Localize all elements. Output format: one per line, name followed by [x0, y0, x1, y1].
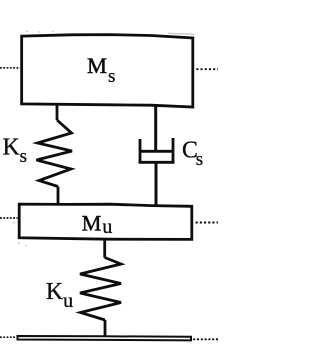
dotted line right of Ms	[196, 68, 218, 70]
svg-text:M: M	[82, 210, 102, 235]
unsprung mass box Mu	[19, 204, 192, 239]
wire from Mu to spring Ku	[103, 239, 106, 258]
spring Ku zigzag	[80, 258, 121, 321]
svg-text:u: u	[63, 290, 73, 312]
wire from Ms to spring Ks	[56, 104, 59, 120]
damper cup left wall	[139, 139, 142, 164]
wire from spring Ku to ground	[104, 320, 107, 337]
ground bar	[18, 336, 192, 340]
dotted line left of Mu	[0, 217, 18, 219]
dotted line left of ground	[0, 336, 16, 338]
wire from Ms to damper Cs	[154, 104, 157, 152]
damper cup bottom	[139, 161, 175, 164]
damper cup right wall	[172, 138, 175, 164]
dotted line right of Mu	[196, 222, 218, 224]
svg-text:s: s	[108, 66, 115, 87]
svg-text:M: M	[87, 53, 107, 78]
svg-text:u: u	[102, 216, 112, 238]
dotted line right of ground	[193, 338, 218, 340]
scan speckles	[13, 31, 201, 247]
dotted line left of Ms	[0, 67, 20, 69]
wire from damper Cs to Mu	[155, 164, 158, 208]
svg-text:K: K	[46, 279, 63, 305]
svg-text:K: K	[3, 134, 20, 160]
damper piston head	[141, 150, 173, 153]
sprung mass box Ms	[22, 35, 193, 107]
wire from spring Ks to Mu	[57, 187, 60, 206]
scan smudge above Ms top-right edge	[168, 32, 194, 35]
svg-text:s: s	[20, 146, 27, 167]
spring Ks zigzag	[37, 120, 73, 187]
